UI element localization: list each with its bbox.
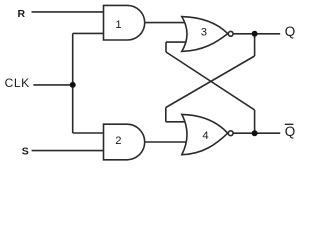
wire CLK to AND1 lower input <box>73 32 104 34</box>
wire Q feedback diagonal <box>166 56 255 108</box>
wire Qbar feedback diagonal <box>166 52 255 110</box>
AND gate U1 <box>104 5 145 40</box>
junction CLK node <box>70 82 76 88</box>
svg-text:Q: Q <box>285 124 296 139</box>
wire CLK input <box>33 84 72 86</box>
junction Qbar node <box>252 130 258 136</box>
NOR gate U3 body <box>182 17 228 52</box>
wire NOR4 input corner vertical <box>165 108 167 122</box>
NOR gate U4 body <box>182 114 228 154</box>
wire NOR4 upper input horizontal <box>166 121 187 123</box>
wire Q feedback vertical <box>254 34 256 56</box>
svg-text:CLK: CLK <box>5 76 30 90</box>
wire NOR3 input corner vertical <box>165 42 167 52</box>
svg-text:2: 2 <box>115 135 121 147</box>
wire AND2 output to NOR4 input <box>144 141 187 143</box>
wire NOR4 output to Qbar <box>234 132 281 134</box>
wire AND1 output to NOR3 input <box>145 22 187 24</box>
wire R input <box>32 11 104 13</box>
svg-text:3: 3 <box>201 26 207 38</box>
label Qbar overline <box>285 123 294 125</box>
wire NOR3 lower input horizontal <box>166 41 187 43</box>
svg-text:R: R <box>18 8 26 20</box>
junction Q node <box>252 31 258 37</box>
wire CLK to AND2 upper input <box>73 132 104 134</box>
svg-text:Q: Q <box>285 24 296 39</box>
AND gate U2 <box>104 124 145 160</box>
wire NOR3 output to Q <box>234 33 281 35</box>
svg-text:S: S <box>22 145 29 157</box>
svg-text:1: 1 <box>115 19 121 31</box>
NOR gate U4 bubble <box>228 131 233 136</box>
NOR gate U3 bubble <box>228 31 233 36</box>
wire S input <box>32 150 104 152</box>
svg-text:4: 4 <box>202 130 208 142</box>
wire Qbar feedback vertical <box>254 110 256 133</box>
wire CLK vertical riser <box>72 33 74 133</box>
